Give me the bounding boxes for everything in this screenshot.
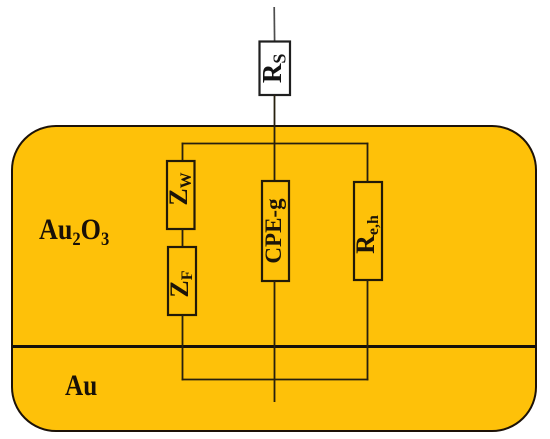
wire: Rs down to CPE-g / node with top rail [274,95,276,181]
label Au [65,371,97,401]
wire: between ZW and ZF [182,229,184,247]
impedance ZF (faradaic impedance) [165,247,196,315]
wire: left branch top segment [182,143,184,161]
impedance ZW (Warburg element) [164,161,195,229]
label Au2O3 [39,215,109,245]
wire: right branch top segment [367,143,369,182]
wire: top rail [182,143,369,145]
wire: left branch bottom segment [182,315,184,380]
Au2O3 layer block (orange rounded rectangle) [11,125,537,432]
resistor RS (series resistance) [257,42,290,96]
wire: right branch bottom segment [367,280,369,380]
capacitor CPE-g (constant phase element) [261,181,289,281]
wire: bottom rail [182,379,369,381]
wire: top lead into Rs [273,7,275,42]
resistor Re,h (electron-hole recombination resistance) [351,182,382,280]
Au2O3 / Au interface divider line [12,345,536,348]
svg-text:CPE-g: CPE-g [261,198,286,264]
wire: center stub through bottom rail into Au layer [274,281,276,402]
